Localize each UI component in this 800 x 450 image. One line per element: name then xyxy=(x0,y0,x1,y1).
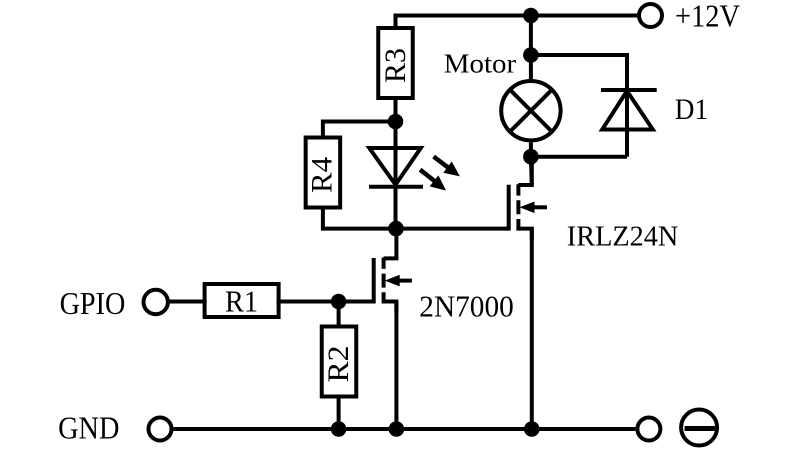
text D1 designator label xyxy=(675,93,708,126)
wire GND rail xyxy=(174,427,636,431)
node B junction xyxy=(388,221,404,237)
resistor R2 xyxy=(322,327,357,397)
wire R3 bottom to node A xyxy=(394,98,398,122)
text +12V label xyxy=(675,0,740,33)
wire motor branch from top rail xyxy=(529,16,533,56)
text 2N7000 value label xyxy=(419,288,514,323)
node A junction xyxy=(388,114,404,130)
resistor R3 xyxy=(378,28,413,98)
wire node D to R2 xyxy=(337,302,341,329)
wire 2N7000 source to GND xyxy=(394,302,398,430)
wire D1 top branch xyxy=(531,55,627,157)
terminal GPIO xyxy=(144,290,168,314)
svg-text:GND: GND xyxy=(58,410,119,446)
wire top rail xyxy=(396,16,638,29)
svg-text:R3: R3 xyxy=(379,48,412,83)
svg-text:Motor: Motor xyxy=(444,49,516,79)
svg-text:D1: D1 xyxy=(675,93,708,126)
node motor top junction xyxy=(523,47,539,63)
wire node C to IRLZ24N drain xyxy=(529,157,534,185)
diode D1 xyxy=(601,90,657,130)
node R2 GND junction xyxy=(331,421,347,437)
transistor Q1 2N7000 xyxy=(374,229,412,313)
svg-text:2N7000: 2N7000 xyxy=(419,288,514,323)
wire R4 bottom to node B xyxy=(323,206,396,229)
wire IRLZ24N source to GND xyxy=(530,229,534,429)
resistor R4 xyxy=(305,138,340,208)
wire R2 to GND xyxy=(337,395,341,430)
transistor Q2 IRLZ24N xyxy=(509,157,547,240)
LED xyxy=(369,148,460,191)
wire D1 bottom branch xyxy=(531,155,627,159)
wire node B to IRLZ24N gate xyxy=(396,227,509,231)
resistor R1 xyxy=(205,284,279,319)
node top rail junction xyxy=(523,8,539,24)
wire GPIO to R1 xyxy=(168,300,207,304)
text GPIO label xyxy=(60,285,126,321)
text Motor label xyxy=(444,49,516,79)
wire R1 to 2N7000 gate xyxy=(277,300,374,304)
battery minus terminal xyxy=(681,410,717,446)
svg-text:IRLZ24N: IRLZ24N xyxy=(567,220,679,252)
svg-text:R2: R2 xyxy=(322,346,355,383)
svg-text:+12V: +12V xyxy=(675,0,740,33)
wire motor bottom to node C xyxy=(529,142,533,156)
node C motor bottom junction xyxy=(523,149,539,165)
svg-text:R4: R4 xyxy=(305,157,338,193)
svg-text:GPIO: GPIO xyxy=(60,285,126,321)
node D gate junction xyxy=(331,294,347,310)
wire motor top to circle xyxy=(529,55,533,79)
text GND label xyxy=(58,410,119,446)
terminal GND right xyxy=(637,418,660,441)
terminal GND left xyxy=(149,418,172,441)
wire node A through LED to node B xyxy=(394,122,398,229)
text IRLZ24N value label xyxy=(567,220,679,252)
node IRLZ24N source GND junction xyxy=(524,421,540,437)
motor M1 xyxy=(501,81,560,140)
wire node A to R4 top xyxy=(323,122,396,140)
svg-text:R1: R1 xyxy=(225,285,258,319)
node 2N7000 source GND junction xyxy=(389,421,405,437)
terminal +12V xyxy=(639,4,662,27)
